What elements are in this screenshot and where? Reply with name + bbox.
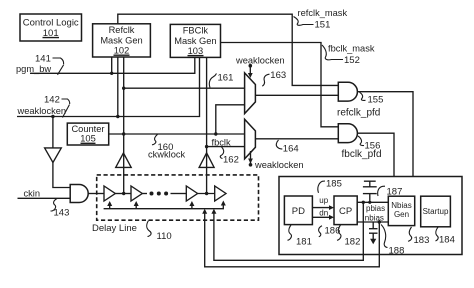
svg-text:Delay Line: Delay Line — [92, 223, 137, 234]
svg-text:184: 184 — [439, 235, 455, 246]
box: Counter 105 — [67, 123, 108, 145]
dn signal arrow PD to CP — [312, 216, 330, 218]
capacitor C187 on pbias — [363, 181, 377, 202]
svg-text:Startup: Startup — [423, 207, 449, 216]
leader squiggle 182 — [337, 225, 341, 240]
riser arrow under buf2 — [135, 204, 137, 209]
wire: mux164 output to gate156 lower input — [255, 138, 338, 140]
wire: counter line branch up to mux163 lower input — [216, 105, 245, 134]
box: Control Logic U101 — [20, 14, 82, 41]
svg-text:102: 102 — [114, 45, 130, 55]
wire: pbias feedback bus to delay line — [214, 202, 363, 260]
svg-text:fbclk_pfd: fbclk_pfd — [342, 149, 382, 160]
fbclk tap buffer 162 (up triangle) — [199, 153, 214, 168]
svg-text:dn: dn — [319, 208, 328, 217]
svg-text:Gen: Gen — [394, 210, 409, 219]
box: Refclk Mask Gen 102 — [93, 24, 151, 57]
leader squiggle 162 — [220, 147, 223, 159]
svg-text:nbias: nbias — [365, 214, 384, 223]
junction dot nbias riser — [378, 220, 381, 223]
leader squiggle 188 — [381, 225, 388, 248]
svg-text:187: 187 — [387, 187, 403, 198]
svg-text:weaklocken: weaklocken — [17, 106, 67, 116]
svg-text:143: 143 — [54, 207, 70, 218]
svg-text:FBClk: FBClk — [183, 26, 209, 36]
leader squiggle 164 — [276, 140, 282, 149]
arrowhead rail to buf4 — [221, 201, 226, 206]
mux 163 — [245, 73, 256, 114]
delay buffer 4 — [215, 186, 226, 201]
leader squiggle 163 — [262, 74, 269, 86]
svg-text:151: 151 — [315, 19, 331, 30]
svg-text:155: 155 — [368, 94, 384, 105]
wire: AND143 output to delay line — [88, 193, 104, 195]
svg-text:up: up — [319, 196, 328, 205]
wire: fbclk_mask net from box103 right edge to gate156 upper input — [221, 43, 339, 127]
wire: refclk_mask net from box102 top to gate155 upper input — [118, 14, 338, 85]
svg-text:105: 105 — [80, 134, 96, 144]
box Startup 184 — [421, 196, 451, 227]
AND gate 156 — [338, 124, 357, 143]
wire chain buf2-dots — [142, 193, 147, 195]
riser arrow under buf1 — [109, 204, 111, 209]
dashed box: Delay Line 110 — [97, 175, 259, 220]
leader squiggle 143 — [51, 199, 58, 212]
weaklocken select stub into mux164 — [250, 151, 252, 165]
leader squiggle 187 — [378, 186, 385, 196]
svg-text:weaklocken: weaklocken — [235, 55, 285, 65]
wire: nbias feedback bus to delay line — [205, 212, 380, 267]
junction dot weaklocken/v2 — [116, 115, 119, 118]
leader squiggle 156 — [358, 136, 364, 146]
leader squiggle 110 — [147, 221, 151, 237]
leader squiggle 155 — [360, 92, 366, 100]
svg-text:pgm_bw: pgm_bw — [16, 64, 51, 74]
svg-text:PD: PD — [292, 206, 305, 217]
wire: pgm_bw net to box103 bottom — [30, 57, 195, 73]
wire: refclk tap vertical (box102 v3 down through tap buffer to chain) — [123, 57, 125, 194]
svg-text:weaklocken: weaklocken — [254, 160, 304, 170]
box CP 182 — [334, 196, 357, 225]
wire: inverter output to AND143 upper input — [53, 163, 70, 188]
svg-text:fbclk: fbclk — [212, 137, 231, 147]
svg-text:ckin: ckin — [24, 189, 41, 199]
svg-text:Refclk: Refclk — [109, 25, 135, 35]
svg-text:186: 186 — [325, 225, 341, 236]
leader squiggle 184 — [436, 227, 439, 241]
wire: ckin into AND143 lower input — [18, 197, 71, 199]
wire: fbclk tap vertical (box103 down through buffer162 to chain) — [206, 57, 208, 193]
junction dot refclk tap on chain — [122, 192, 125, 195]
svg-text:162: 162 — [223, 155, 239, 166]
svg-text:185: 185 — [326, 178, 342, 189]
wire: fbclk branch to mux164 lower input — [207, 146, 245, 148]
svg-text:fbclk_mask: fbclk_mask — [328, 44, 375, 54]
wire: box102 output v2 — [117, 57, 119, 117]
svg-text:103: 103 — [188, 46, 204, 56]
leader 142 with slash across weaklocken wire — [62, 99, 70, 104]
junction dot weaklocken/inverter branch — [51, 115, 54, 118]
svg-text:Nbias: Nbias — [391, 201, 411, 210]
delay buffer 3 — [186, 186, 197, 201]
wire chain buf1-buf2 — [115, 193, 131, 195]
svg-text:Mask Gen: Mask Gen — [174, 36, 216, 46]
wire: fbclk_pfd output down into bias box — [357, 133, 394, 176]
big box: bias/PFD block — [279, 177, 462, 255]
mux 164 — [245, 119, 256, 159]
wire: weaklocken net to box103 bottom — [17, 57, 200, 116]
weaklocken select stub into mux163 — [249, 64, 253, 68]
junction dot tap/line161 — [122, 87, 125, 90]
wire chain buf3-buf4 — [198, 193, 215, 195]
svg-text:163: 163 — [270, 70, 286, 81]
wire: refclk_pfd output down into bias box — [357, 92, 413, 177]
junction dot pgm_bw/v1 — [110, 72, 113, 75]
box PD 181 — [284, 196, 312, 225]
leader squiggle 161 — [209, 74, 216, 88]
svg-text:188: 188 — [389, 246, 405, 257]
junction dot counter line / branch — [214, 132, 217, 135]
wire: pbias line CP to Nbias Gen — [357, 201, 388, 203]
wire chain dots-buf3 — [171, 193, 187, 195]
up signal arrow PD to CP — [312, 207, 330, 209]
svg-text:164: 164 — [283, 143, 299, 154]
leader squiggle 185 — [318, 181, 325, 193]
svg-text:Mask Gen: Mask Gen — [100, 35, 142, 45]
wire: counter output line (ckwklock) to mux164 upper input — [109, 133, 245, 135]
svg-text:152: 152 — [344, 55, 360, 66]
refclk tap buffer (up triangle) — [116, 153, 132, 168]
leader squiggle 186 — [319, 226, 322, 237]
delay buffer 2 — [131, 186, 142, 201]
bias rail inside delay line — [104, 203, 224, 209]
capacitor C188 on nbias with ground arrow — [369, 222, 378, 244]
junction dot cap187/pbias — [368, 201, 371, 204]
junction dot fbclk tap on chain — [205, 192, 208, 195]
svg-text:CP: CP — [339, 206, 352, 217]
leader squiggle 181 — [288, 225, 292, 240]
wire: nbias line CP to Nbias Gen — [357, 221, 388, 223]
svg-text:ckwklock: ckwklock — [148, 150, 186, 160]
junction dot fbclk branch — [205, 145, 208, 148]
wire: box102 output v1 — [111, 57, 113, 73]
junction dot pbias riser — [362, 201, 365, 204]
leader squiggle 152 — [322, 45, 343, 60]
ellipsis dots of delay chain — [150, 192, 154, 196]
AND gate 143 — [70, 185, 88, 203]
wire: mux163 output to gate155 lower input — [255, 94, 338, 96]
wire: weaklocken branch down to inverter — [52, 117, 54, 148]
inverter buffer (down triangle) — [45, 148, 62, 163]
svg-text:pbias: pbias — [366, 204, 385, 213]
delay buffer 1 — [104, 186, 115, 201]
box Nbias Gen 183 — [388, 196, 414, 225]
leader 141 with slash across pgm_bw wire — [53, 58, 64, 64]
wire: line 161 to mux163 upper input — [124, 87, 245, 89]
riser arrow under buf3 — [191, 204, 193, 209]
svg-text:183: 183 — [414, 235, 430, 246]
leader squiggle 183 — [408, 227, 412, 241]
box: FBClk Mask Gen 103 — [170, 24, 220, 57]
svg-text:refclk_pfd: refclk_pfd — [337, 107, 380, 118]
svg-text:182: 182 — [345, 236, 361, 247]
svg-text:refclk_mask: refclk_mask — [298, 8, 348, 18]
AND gate 155 — [338, 82, 357, 101]
svg-text:161: 161 — [218, 72, 234, 83]
leader squiggle 151 — [294, 17, 314, 26]
svg-text:181: 181 — [296, 236, 312, 247]
leader squiggle 160 — [152, 134, 158, 145]
svg-text:142: 142 — [44, 95, 60, 106]
junction dot tap/counter line — [122, 132, 125, 135]
svg-text:110: 110 — [157, 231, 172, 242]
